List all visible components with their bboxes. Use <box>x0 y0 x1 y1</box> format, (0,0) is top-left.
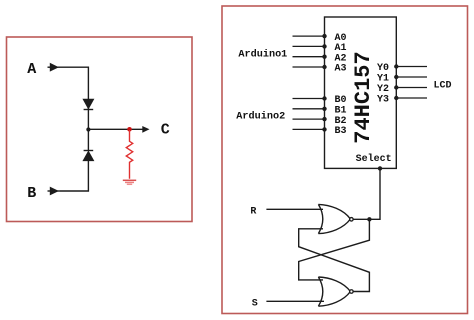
diode D1 (conducts down) <box>84 100 94 110</box>
svg-text:B3: B3 <box>335 126 347 137</box>
svg-text:S: S <box>252 298 258 309</box>
pin A2 <box>293 53 347 64</box>
pin A0 <box>293 33 347 44</box>
diode D2 (conducts up) <box>84 151 94 161</box>
svg-text:74HC157: 74HC157 <box>351 51 376 143</box>
pin B2 <box>293 116 347 127</box>
svg-text:Arduino2: Arduino2 <box>236 110 285 122</box>
wire R input <box>266 208 323 210</box>
pin Y1 <box>377 74 427 85</box>
panel: left schematic frame <box>7 37 193 222</box>
pin B3 <box>293 126 347 137</box>
svg-text:R: R <box>250 207 256 218</box>
svg-text:A: A <box>27 61 36 78</box>
wire Select to latch output <box>354 168 381 219</box>
wire D2 to B <box>60 160 88 191</box>
wire G2 output to G1 input (cross-coupling) <box>299 229 370 292</box>
ground (red) <box>123 180 136 184</box>
svg-text:Y0: Y0 <box>377 63 389 74</box>
pin A1 <box>293 43 347 54</box>
resistor R1 (red) <box>126 130 132 179</box>
node tap dot (red) at C wire <box>127 127 132 132</box>
panel: right schematic frame <box>222 6 468 314</box>
svg-text:A3: A3 <box>335 64 347 75</box>
IC U1 74HC157 body <box>325 17 397 168</box>
svg-text:B: B <box>27 185 36 202</box>
svg-text:Y1: Y1 <box>377 74 389 85</box>
node C arrow <box>142 126 149 133</box>
svg-text:Y2: Y2 <box>377 84 389 95</box>
NOR gate G1 (top) <box>318 204 353 233</box>
NOR gate G2 (bottom) <box>318 277 353 306</box>
svg-text:Select: Select <box>356 153 392 165</box>
wire junction to C <box>88 128 144 130</box>
pin Y3 <box>377 95 427 106</box>
svg-text:Arduino1: Arduino1 <box>238 49 287 61</box>
wire G1 output to G2 input (cross-coupling) <box>299 219 370 280</box>
node B arrow <box>48 188 61 195</box>
pin B0 <box>293 95 347 106</box>
svg-text:LCD: LCD <box>434 81 452 92</box>
wire S input <box>266 300 324 302</box>
pin A3 <box>293 64 347 75</box>
svg-text:C: C <box>161 122 170 139</box>
wire D1 to junction <box>87 108 89 150</box>
wire A to diode D1 <box>60 67 88 100</box>
pin Y2 <box>377 84 427 95</box>
svg-text:Y3: Y3 <box>377 95 389 106</box>
node A arrow <box>48 64 61 71</box>
junction node dot <box>86 127 90 131</box>
pin Select dot <box>378 166 382 170</box>
junction dot Q (latch output) <box>367 217 371 221</box>
pin B1 <box>293 106 347 117</box>
pin Y0 <box>377 63 427 74</box>
